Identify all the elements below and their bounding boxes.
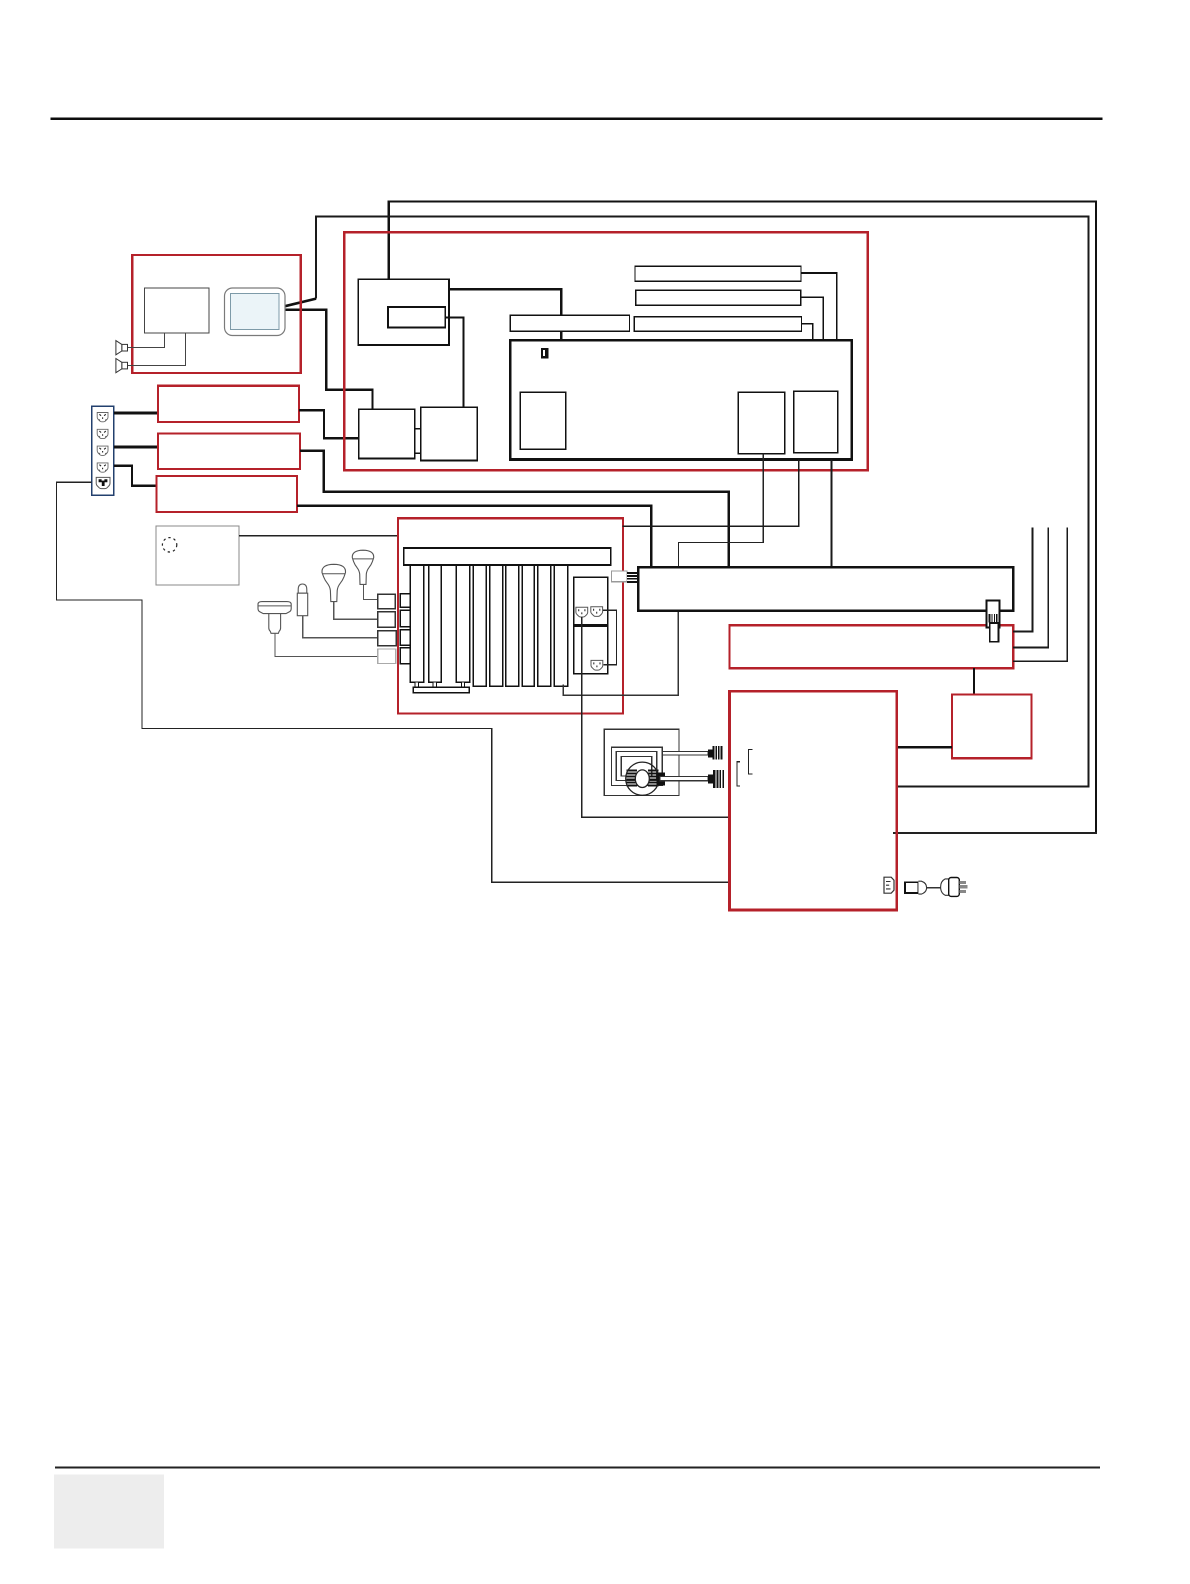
card slat 9 [554, 565, 567, 686]
wire: power control to stub 3 [1013, 528, 1067, 662]
card slat 5 [490, 565, 503, 686]
slat 3 foot [461, 682, 464, 687]
wire: line B from main board bottom [622, 460, 798, 527]
wire: outlet5 long run to power supply [57, 482, 730, 882]
wire: daughter card 1 down to relay box top [679, 454, 764, 567]
wire: y526 run from card rack edge to line B [622, 525, 798, 527]
fan connector block [657, 773, 666, 786]
main board right daughter card 1 [738, 392, 784, 453]
rack internal connector box 4 [400, 648, 410, 664]
breaker red box [952, 695, 1031, 759]
monitor CRT box [145, 288, 209, 333]
power cord receptacle [905, 882, 918, 893]
wire: bar B to main board [801, 297, 823, 340]
PS bracket symbol 2 [737, 762, 740, 786]
PCI slot bar [510, 315, 629, 331]
outlet 4 [97, 463, 108, 472]
wire: power supply to breaker box [897, 746, 952, 749]
power plug body [949, 878, 960, 897]
LCD touch panel outer shell [225, 288, 286, 336]
red bar 3 [156, 476, 297, 512]
wire: T2 from LCD up and across to far right, down to power supply [316, 216, 1088, 786]
wire: LCD diagonal to T2 vertical [285, 299, 316, 307]
memory bar C [634, 317, 801, 332]
relay connector ribs [989, 614, 998, 623]
power cord bell [918, 881, 926, 894]
fan unit outer box [604, 729, 679, 795]
wire: probe 1 to connector box 4 [275, 633, 378, 656]
fan cable 1 plug [708, 746, 723, 759]
monitor control box [358, 279, 449, 345]
wire: line C from main board bottom to relay box [831, 460, 833, 567]
wire: monitor to speaker 2 [128, 333, 186, 366]
relay unit long box [638, 567, 1013, 611]
outlet 5 (hospital grade) [96, 477, 110, 488]
relay box bottom connector shell [986, 600, 999, 627]
wire: power control to stub 1 [1013, 528, 1032, 632]
rack right edge connector (gray shell) [612, 571, 627, 582]
rack internal connector box 3 [400, 630, 410, 646]
outlet 2 [97, 429, 108, 438]
probe connector box 1 [378, 594, 396, 609]
card slat 3 [456, 565, 469, 682]
rack internal connector box 1 [400, 594, 410, 608]
wire: probe 2 to connector box 3 [303, 616, 378, 638]
wire: probe 3 to connector box 2 [334, 602, 378, 620]
power control red box [729, 625, 1013, 668]
red bar 1 (monitor power cable) [158, 386, 299, 422]
card slat 2 [429, 565, 442, 682]
keyboard interface box A [359, 409, 415, 458]
red bar 2 [158, 434, 300, 469]
wire: bar C to main board [802, 324, 813, 341]
wire: monitor to speaker 1 [128, 333, 165, 348]
card slat 4 [473, 565, 486, 686]
AC outlet strip enclosure [92, 406, 114, 495]
slat 2 foot [433, 682, 436, 687]
probe 1 (flat transducer) [258, 602, 291, 634]
wire: footswitch to card rack [239, 535, 398, 537]
monitor control inner card [388, 307, 445, 328]
wire: outlet1 to monitor bar [114, 412, 158, 415]
power supply red box [730, 691, 897, 910]
PS bracket symbol 1 [749, 750, 753, 774]
wire: bar3 right to relay unit [297, 506, 651, 567]
probe connector box 2 [378, 612, 396, 628]
wire: control box to main board [449, 289, 562, 340]
probe 4 (convex transducer) [352, 550, 373, 584]
power cord wire [927, 887, 941, 888]
main board right daughter card 2 [794, 391, 838, 453]
fan hub [635, 770, 649, 788]
monitor unit red enclosure [132, 255, 300, 373]
memory bar A [635, 266, 801, 281]
speaker 2 [116, 359, 128, 373]
wire: T1 top horizontal from monitor-ctrl box to far right [389, 201, 1096, 833]
card rack red enclosure [398, 518, 623, 713]
power plug bell [941, 879, 949, 895]
wire: panel outlet 1 down to power supply [582, 617, 730, 817]
rack outlet panel [574, 577, 608, 674]
outlet panel divider [574, 624, 608, 627]
power plug prongs [959, 881, 967, 893]
wire: bar2 right to relay unit [300, 451, 729, 567]
wire: power control down to breaker box [973, 668, 975, 694]
keyboard interface box B [421, 407, 478, 460]
footswitch box [156, 526, 239, 585]
panel outlet 1 [576, 607, 588, 617]
card slat 7 [522, 565, 534, 686]
fan motor stripes left [627, 771, 638, 786]
connector icon slot [543, 350, 545, 356]
wire: power control to stub 2 [1013, 528, 1048, 648]
memory bar B [636, 290, 801, 305]
slat 1 foot [415, 682, 418, 687]
wire: bar1 right to keyboard I/F [299, 410, 359, 438]
wire: T1 bottom segment into power supply right edge [893, 832, 1097, 834]
wire: panel outlet 2 loop to outlet 3 [603, 610, 617, 665]
outlet 3 [97, 446, 108, 455]
wire: slat 9 to relay box bottom [563, 611, 678, 696]
wire: outlet3 to bar2 [114, 446, 158, 449]
wire: bar A to main board [801, 273, 837, 340]
probe connector box 3 [378, 631, 397, 646]
main board (large box) [510, 340, 852, 459]
fan cable 1 [662, 752, 708, 756]
card slat 8 [538, 565, 551, 686]
main board left daughter card [520, 392, 565, 449]
top header rule [51, 117, 1103, 120]
outlet 1 [97, 413, 108, 422]
panel outlet 2 [591, 607, 603, 617]
card slat 6 [506, 565, 519, 686]
rack pedestal [413, 687, 469, 692]
rack connector ribbed section [627, 572, 638, 583]
panel outlet 3 [591, 660, 603, 670]
speaker 1 [116, 341, 128, 355]
wire: LCD to keyboard interface box (down left column) [285, 310, 372, 410]
main electronics red enclosure [344, 232, 868, 470]
fan motor stripes right [648, 771, 659, 786]
fan coil rect 2 [621, 756, 652, 776]
fan circle [626, 762, 659, 795]
card slat 1 [410, 565, 423, 682]
relay connector lower stub [990, 623, 999, 642]
wire: outlet4 to bar3 [114, 466, 157, 486]
small connector icon on main board [541, 348, 549, 359]
fan unit inner frame [611, 747, 662, 785]
footswitch connector (dashed circle) [162, 538, 176, 552]
fan coil rect 1 [616, 752, 657, 781]
rack connector plug on relay box [638, 571, 652, 583]
LCD screen [231, 294, 280, 330]
rack internal connector box 2 [400, 610, 410, 627]
wire: probe 4 to connector box 1 [363, 584, 377, 599]
keyboard connector nub [415, 429, 421, 454]
probe connector box 4 (spare, gray) [378, 649, 396, 664]
fan cable 2 [660, 777, 708, 781]
card rack top bar [404, 548, 611, 565]
wire: inner card to keyboard box [445, 318, 463, 408]
fan cable 2 plug [708, 770, 724, 788]
bottom footer rule [55, 1467, 1100, 1469]
probe 2 (pencil transducer) [297, 584, 307, 616]
AC inlet icon on power supply [884, 877, 894, 893]
footer gray box [54, 1475, 164, 1549]
probe 3 (convex transducer) [322, 564, 346, 601]
